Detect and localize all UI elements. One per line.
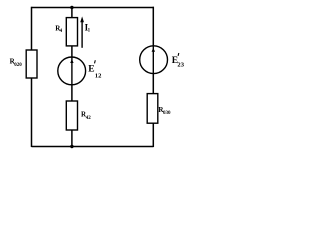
current arrow I1 [80,16,84,47]
svg-text:23: 23 [177,61,184,68]
EMF source E'12 [58,57,86,85]
label R020 [10,58,23,68]
node dot bottom (node 0) [70,145,73,148]
label R4 [55,24,62,34]
svg-text:42: 42 [86,116,92,121]
node dot top (node 1) [70,6,73,9]
label R42 [81,110,91,120]
resistor R4 [66,18,77,46]
label R030 [158,106,171,116]
wire middle branch [71,8,73,147]
wire left branch [31,7,33,147]
wire top (node 1 rail) [32,7,155,9]
svg-text:12: 12 [95,72,102,79]
svg-text:030: 030 [163,111,171,116]
label I1 [85,23,91,34]
label E'12 [88,60,102,79]
resistor R42 [66,101,77,130]
wire right branch [152,7,154,147]
wire bottom (node 0 rail) [32,146,154,148]
label E'23 [172,53,185,68]
svg-text:020: 020 [14,63,22,68]
resistor R020 [26,50,37,78]
svg-text:E: E [88,64,94,74]
resistor R030 [147,94,158,124]
EMF source E'23 [140,46,168,74]
